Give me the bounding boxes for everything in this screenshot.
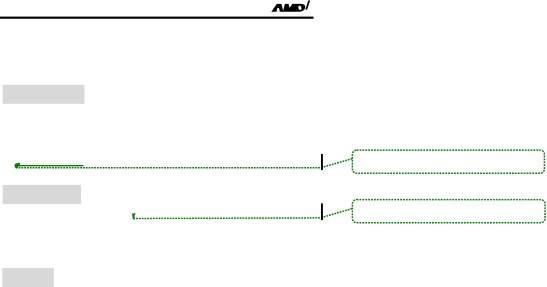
callout 1 strikeout line bbox=[17, 165, 84, 167]
header rule bbox=[0, 17, 314, 19]
callout 1 box bbox=[352, 150, 544, 173]
redaction block 3 bbox=[2, 268, 54, 287]
callout 2 box bbox=[352, 200, 545, 223]
AMD logo bbox=[271, 0, 310, 11]
redaction block 1 bbox=[3, 85, 85, 104]
callout 1 arrowhead bbox=[14, 163, 20, 169]
callout 1 leader bbox=[16, 159, 353, 168]
caret 1 bbox=[321, 154, 323, 170]
redaction block 2 bbox=[3, 185, 81, 204]
callout 2 arrowhead bbox=[132, 213, 136, 219]
callout 2 leader bbox=[133, 209, 352, 219]
caret 2 bbox=[321, 203, 323, 220]
